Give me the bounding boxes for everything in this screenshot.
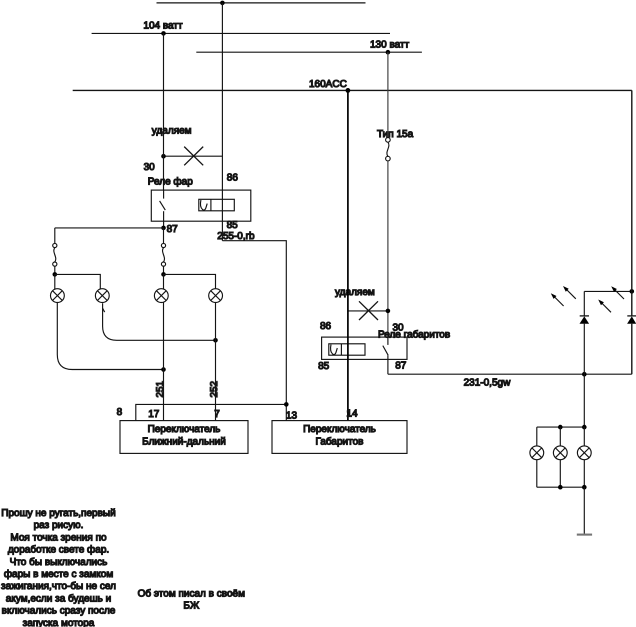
wire top supply bus	[157, 2, 366, 4]
node junction marker top middle	[558, 425, 563, 430]
svg-text:Переключатель: Переключатель	[148, 424, 221, 435]
LED D2 branch wire	[631, 291, 633, 316]
node junction right lamp feed	[161, 272, 166, 277]
relay U2 coil squiggle	[331, 345, 338, 355]
wire 160ACC right drop	[631, 90, 633, 291]
svg-text:Тип 15а: Тип 15а	[377, 129, 414, 140]
svg-text:включались сразу после: включались сразу после	[2, 606, 116, 617]
LED D1 branch wire	[583, 324, 585, 375]
svg-text:Переключатель: Переключатель	[303, 424, 376, 435]
wire coil feed 160ACC to switch pin 14	[347, 90, 349, 420]
svg-text:Об этом писал в своём: Об этом писал в своём	[138, 588, 245, 599]
svg-text:160ACC: 160ACC	[309, 79, 347, 90]
svg-text:Реле габаритов: Реле габаритов	[378, 329, 450, 340]
node junction on wire 252	[213, 338, 218, 343]
svg-text:130 ватт: 130 ватт	[370, 40, 410, 51]
wire marker lamp bottom bus	[537, 486, 585, 488]
wire 231-0,5gw from relay U2 pin 87	[388, 373, 632, 375]
svg-text:Моя точка зрения по: Моя точка зрения по	[10, 532, 107, 543]
relay U1 switch contact	[163, 190, 165, 199]
svg-text:30: 30	[144, 162, 156, 173]
wire lamp L1 return to node 251	[57, 302, 163, 369]
wire to ground	[583, 487, 585, 534]
svg-text:86: 86	[227, 173, 239, 184]
lamp L4 (headlight)	[209, 289, 223, 303]
svg-text:Реле фар: Реле фар	[148, 176, 193, 187]
relay U2 switch contact	[387, 337, 389, 345]
node junction LED branch	[582, 372, 587, 377]
wire jumper to be removed (relay 2)	[348, 310, 388, 312]
svg-text:удаляем: удаляем	[152, 126, 192, 137]
svg-text:87: 87	[167, 224, 179, 235]
wire feed to lamp L3	[163, 274, 165, 289]
note text block left	[1, 508, 116, 627]
relay U2 coil box	[329, 344, 365, 355]
svg-text:13: 13	[286, 411, 298, 422]
node junction on wire 251	[161, 367, 166, 372]
LED D2	[627, 316, 636, 323]
node junction on 160ACC bus	[346, 88, 351, 93]
svg-text:231-0,5gw: 231-0,5gw	[464, 377, 511, 388]
svg-text:7: 7	[214, 409, 220, 420]
node junction on 104-watt bus	[161, 31, 166, 36]
svg-text:удаляем: удаляем	[335, 287, 375, 298]
svg-text:Что бы выключались: Что бы выключались	[10, 557, 108, 568]
wire 252 lamp L4 to switch pin 7	[215, 302, 217, 420]
lamp L3 (headlight)	[154, 289, 168, 303]
lamp L7 (marker)	[577, 446, 591, 460]
arrow tick on lamp L2 return	[103, 308, 105, 312]
node junction marker top right	[582, 425, 587, 430]
ground	[577, 534, 592, 536]
wire fuse to relay U2 pin 30	[387, 161, 389, 337]
X delete mark (relay 1 jumper)	[184, 147, 203, 166]
lamp L2 (headlight)	[95, 289, 109, 303]
wire 160ACC bus	[73, 89, 632, 91]
wire 255-0,rb run to switch pin 13	[222, 241, 286, 421]
wire feed to lamp L4	[164, 274, 216, 288]
LED D1 light arrow upper	[563, 286, 576, 299]
node junction on 130-watt bus	[386, 50, 391, 55]
svg-text:запуска мотора: запуска мотора	[23, 618, 95, 627]
wire feed to lamp L2	[55, 274, 101, 289]
LED D2 light arrow lower	[598, 300, 611, 313]
LED D2 light arrow upper	[611, 286, 624, 299]
svg-text:87: 87	[395, 360, 407, 371]
wire 251 lamp L3 to switch pin 17	[163, 302, 165, 420]
relay U1 body	[151, 190, 251, 221]
svg-text:8: 8	[117, 407, 123, 418]
node junction 87	[161, 226, 166, 231]
svg-text:104 ватт: 104 ватт	[143, 21, 183, 32]
node junction on fuse wire	[386, 309, 391, 314]
svg-text:зажигания,что-бы не сел: зажигания,что-бы не сел	[1, 581, 116, 592]
LED D1 light arrow lower	[551, 293, 564, 306]
connector X1 (left lamp feed)	[54, 228, 56, 243]
wire feed to lamp L1	[54, 274, 56, 289]
node junction pin13 feed	[284, 402, 289, 407]
wire coil 86-85 through relay U1	[221, 3, 223, 241]
node junction marker bottom right	[582, 485, 587, 490]
node junction on top bus	[220, 1, 225, 6]
svg-text:251: 251	[155, 380, 166, 397]
svg-text:акум,если за будешь и: акум,если за будешь и	[6, 593, 111, 604]
wire pin30 from 104-watt bus to relay U1	[163, 33, 165, 190]
wire marker lamp top bus	[537, 426, 585, 428]
node junction left lamp feed	[53, 272, 58, 277]
wire LED branch down to marker lamps	[583, 374, 585, 427]
svg-text:Ближний-дальний: Ближний-дальний	[142, 436, 226, 447]
svg-text:БЖ: БЖ	[183, 601, 200, 612]
svg-text:фары в месте с замком: фары в месте с замком	[4, 569, 114, 580]
relay U2 body	[322, 337, 407, 359]
LED D1	[580, 316, 590, 323]
svg-text:252: 252	[209, 380, 220, 397]
svg-text:14: 14	[346, 409, 358, 420]
wire lamp L2 return to node 252	[103, 303, 216, 340]
wire pin8 feed	[136, 404, 286, 420]
wire 130-watt bus	[196, 51, 422, 53]
connector X2 (right lamp feed)	[163, 228, 165, 243]
svg-text:Прошу не ругать,первый: Прошу не ругать,первый	[1, 508, 115, 519]
lamp L6 (marker)	[553, 446, 567, 460]
wire 87 to left lamp group	[55, 227, 164, 229]
svg-text:Габаритов: Габаритов	[316, 436, 364, 447]
X delete mark (relay 2 jumper)	[359, 301, 378, 320]
svg-text:17: 17	[148, 409, 160, 420]
svg-text:раз рисую.: раз рисую.	[34, 520, 84, 531]
svg-text:доработке свете фар.: доработке свете фар.	[8, 545, 109, 556]
lamp L1 (headlight)	[51, 289, 65, 303]
node junction LED top	[630, 289, 635, 294]
relay U1 coil squiggle	[200, 200, 207, 210]
svg-text:85: 85	[227, 220, 239, 231]
wire marker lamp bottom stubs	[536, 460, 538, 488]
wire stubs to marker lamps	[536, 427, 538, 446]
switch S2 box Переключатель Габаритов	[272, 421, 407, 454]
relay U1 coil box	[199, 199, 235, 211]
node junction on pin30 wire	[161, 154, 166, 159]
wire jumper to be removed (relay 1)	[164, 155, 223, 157]
wire 130-watt to fuse	[387, 52, 389, 137]
lamp L5 (marker)	[530, 446, 544, 460]
switch S1 box Переключатель Ближний-дальний	[120, 421, 248, 454]
node junction marker bottom middle	[558, 485, 563, 490]
fuse / connector F1	[386, 138, 391, 143]
wire 104-watt bus	[92, 32, 390, 34]
svg-text:85: 85	[318, 361, 330, 372]
svg-text:86: 86	[320, 321, 332, 332]
